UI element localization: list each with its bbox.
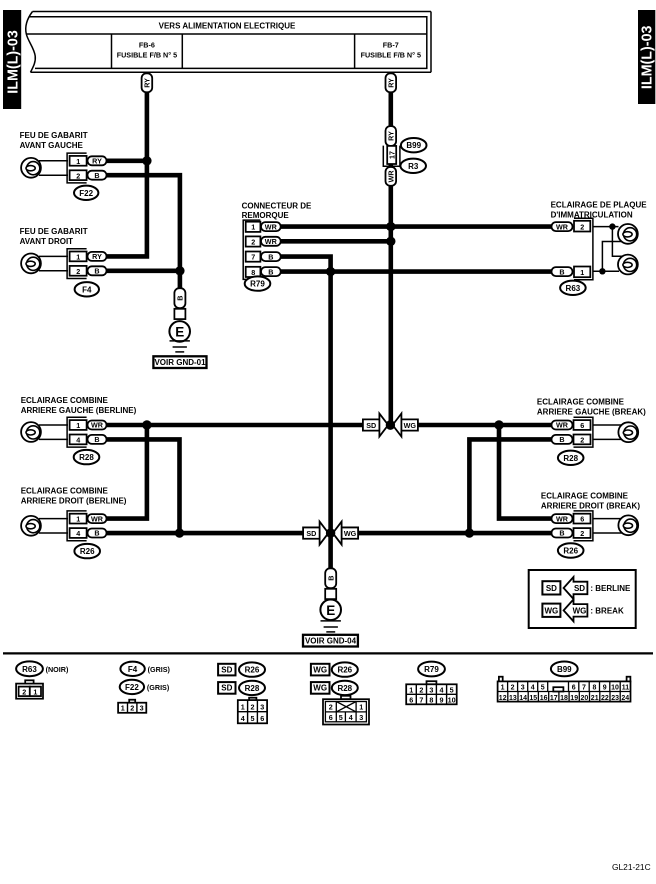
- connector face berline 6-pin: [238, 698, 267, 724]
- legend box SD/WG: [529, 570, 636, 628]
- svg-text:RY: RY: [143, 78, 152, 88]
- svg-text:R28: R28: [79, 453, 94, 462]
- svg-text:F22: F22: [125, 683, 139, 692]
- note VOIR GND-01: [153, 356, 206, 368]
- svg-text:B: B: [268, 252, 273, 261]
- wire plaque pin1 to lamps: [593, 242, 622, 275]
- connector designator F22: [74, 186, 98, 200]
- svg-text:VOIR GND-01: VOIR GND-01: [154, 358, 206, 367]
- label ECLAIRAGE COMBINE ARRIERE GAUCHE (BREAK): [537, 398, 646, 417]
- connector face R79 10-pin: [406, 681, 457, 704]
- svg-text:R63: R63: [566, 284, 581, 293]
- legend arrow WG : BREAK: [564, 599, 624, 621]
- page tab ILM(L)-03 left: [3, 10, 22, 109]
- svg-text:FB-7: FB-7: [383, 41, 399, 50]
- connector face break 6-pin with keyway X: [323, 696, 369, 725]
- svg-text:ECLAIRAGE COMBINE: ECLAIRAGE COMBINE: [537, 398, 625, 407]
- label WR R26 berline: [88, 514, 107, 523]
- label B R79 pin7: [261, 252, 281, 261]
- svg-text:4: 4: [76, 436, 80, 445]
- svg-text:RY: RY: [386, 78, 395, 88]
- label B R79 pin8: [261, 267, 281, 276]
- svg-text:WR: WR: [91, 514, 104, 523]
- junction B berline: [175, 528, 184, 537]
- designator F4 (GRIS): [120, 662, 170, 676]
- svg-text:ECLAIRAGE COMBINE: ECLAIRAGE COMBINE: [21, 487, 109, 496]
- svg-text:R26: R26: [245, 666, 260, 675]
- svg-text:5: 5: [251, 714, 255, 723]
- legend arrow SD : BERLINE: [564, 577, 631, 599]
- svg-text:13: 13: [509, 695, 517, 702]
- svg-text:B: B: [94, 171, 99, 180]
- svg-text:ECLAIRAGE DE PLAQUE: ECLAIRAGE DE PLAQUE: [551, 200, 648, 209]
- designator F22 (GRIS): [120, 680, 170, 694]
- fuse FB-7 (FUSIBLE F/B N 5): [355, 34, 421, 68]
- connector face B99 24-pin: [498, 677, 631, 702]
- svg-text:2: 2: [580, 436, 584, 445]
- svg-text:2: 2: [580, 529, 584, 538]
- connector R28 berline gauche: [67, 417, 87, 447]
- svg-text:17: 17: [550, 695, 558, 702]
- connector face F4/F22 3-pin: [118, 700, 146, 713]
- connector R63 plaque: [574, 218, 593, 280]
- svg-text:1: 1: [580, 268, 584, 277]
- svg-text:B: B: [559, 529, 564, 538]
- note VOIR GND-04: [303, 635, 358, 647]
- legend SD tag: [542, 581, 560, 594]
- svg-text:VERS ALIMENTATION ELECTRIQUE: VERS ALIMENTATION ELECTRIQUE: [159, 21, 296, 30]
- svg-text:B: B: [326, 576, 335, 581]
- svg-text:R79: R79: [424, 665, 439, 674]
- designator R63 (NOIR): [16, 661, 69, 676]
- wire B feu gabarit gauche pin2 down to ground GND-01 (V2): [105, 175, 180, 300]
- wire B arriere gauche break down (V7): [469, 439, 553, 533]
- svg-text:1: 1: [251, 223, 255, 232]
- label WR plaque pin2: [552, 222, 573, 231]
- svg-text:ECLAIRAGE COMBINE: ECLAIRAGE COMBINE: [541, 491, 629, 500]
- svg-text:F4: F4: [82, 285, 92, 294]
- svg-text:SD: SD: [306, 529, 316, 538]
- svg-text:4: 4: [241, 714, 245, 723]
- svg-text:4: 4: [76, 529, 80, 538]
- svg-text:WR: WR: [265, 222, 278, 231]
- svg-text:19: 19: [570, 695, 578, 702]
- svg-text:14: 14: [519, 695, 527, 702]
- label B R26 break: [552, 529, 573, 538]
- connector R26 berline droit: [67, 511, 87, 541]
- svg-text:9: 9: [440, 695, 444, 704]
- svg-text:3: 3: [429, 686, 433, 695]
- junction WR pin2 / V3: [386, 237, 395, 246]
- svg-text:7: 7: [582, 685, 586, 692]
- connector designator R26 berline: [74, 544, 100, 558]
- svg-text:4: 4: [440, 686, 444, 695]
- svg-text:ECLAIRAGE COMBINE: ECLAIRAGE COMBINE: [21, 396, 109, 405]
- svg-text:WG: WG: [404, 421, 417, 430]
- page tab ILM(L)-03 right: [638, 10, 656, 104]
- svg-text:1: 1: [501, 685, 505, 692]
- svg-text:24: 24: [621, 695, 629, 702]
- svg-text:RY: RY: [92, 252, 102, 261]
- svg-text:FEU DE GABARIT: FEU DE GABARIT: [20, 131, 88, 140]
- junction B feu droit: [175, 266, 184, 275]
- svg-text:R28: R28: [337, 684, 352, 693]
- svg-text:B: B: [94, 435, 99, 444]
- svg-text:WG: WG: [573, 606, 587, 615]
- svg-text:12: 12: [499, 695, 507, 702]
- svg-text:: BREAK: : BREAK: [590, 606, 624, 615]
- connector designator R79: [245, 276, 271, 290]
- lamp arriere droit break: [593, 515, 638, 535]
- svg-text:B: B: [176, 296, 185, 301]
- label RY fusible FB-7 drop: [386, 73, 397, 92]
- lamp arriere droit berline: [21, 516, 68, 536]
- label B pin2 feu gauche: [88, 171, 107, 180]
- svg-text:1: 1: [33, 688, 37, 697]
- connector designator R26 break: [558, 543, 584, 557]
- svg-text:WG: WG: [344, 529, 357, 538]
- svg-text:WG: WG: [545, 606, 559, 615]
- wire RY/WR main from FB-7 down to junction SD/WG (V3): [388, 72, 393, 425]
- svg-text:6: 6: [580, 515, 584, 524]
- svg-text:21: 21: [591, 695, 599, 702]
- svg-text:ILM(L)-03: ILM(L)-03: [640, 25, 656, 89]
- svg-text:7: 7: [251, 253, 255, 262]
- svg-text:WR: WR: [386, 170, 395, 183]
- wire WR down to arriere droit break (V8): [499, 425, 553, 519]
- label WR R79 pin1: [261, 222, 281, 231]
- svg-text:R28: R28: [563, 454, 578, 463]
- label ECLAIRAGE COMBINE ARRIERE DROIT (BREAK): [541, 491, 640, 510]
- svg-text:5: 5: [339, 713, 343, 722]
- wire WR remorque pin1 to plaque immatriculation (H3): [279, 224, 553, 229]
- svg-text:E: E: [175, 324, 184, 339]
- svg-text:2: 2: [419, 686, 423, 695]
- svg-text:2: 2: [76, 267, 80, 276]
- junction dot upper redrawn: [386, 420, 395, 429]
- junction WR pin1 / V3: [386, 222, 395, 231]
- svg-text:7: 7: [419, 695, 423, 704]
- junction node SD/WG upper: [386, 420, 395, 429]
- svg-text:11: 11: [622, 685, 630, 692]
- svg-text:B99: B99: [557, 665, 572, 674]
- wire WR rear combination lamps upper row (H1): [105, 423, 552, 428]
- label RY above connector 17: [386, 126, 397, 146]
- junction B break: [465, 528, 474, 537]
- svg-text:CONNECTEUR DE: CONNECTEUR DE: [242, 202, 312, 211]
- connector designator R28 berline: [74, 450, 100, 464]
- svg-text:9: 9: [603, 685, 607, 692]
- svg-text:ARRIERE GAUCHE (BREAK): ARRIERE GAUCHE (BREAK): [537, 408, 646, 417]
- label FEU DE GABARIT AVANT DROIT: [20, 227, 88, 246]
- svg-text:R3: R3: [408, 162, 419, 171]
- label RY pin1 feu gauche: [88, 156, 107, 165]
- svg-text:5: 5: [541, 685, 545, 692]
- arrow WG upper junction: [393, 414, 418, 437]
- legend tag WG R26: [311, 662, 358, 676]
- label CONNECTEUR DE REMORQUE: [242, 202, 312, 221]
- svg-text:SD: SD: [366, 421, 376, 430]
- svg-text:AVANT DROIT: AVANT DROIT: [20, 237, 74, 246]
- designator B99: [551, 662, 578, 677]
- connector designator R28 break: [558, 451, 584, 465]
- svg-text:8: 8: [429, 695, 433, 704]
- svg-text:VOIR GND-04: VOIR GND-04: [305, 637, 357, 646]
- svg-text:6: 6: [260, 714, 264, 723]
- svg-text:1: 1: [409, 686, 413, 695]
- svg-text:18: 18: [560, 695, 568, 702]
- label B R26 berline: [88, 529, 107, 538]
- separator line legend section: [3, 652, 653, 654]
- svg-text:10: 10: [611, 685, 619, 692]
- fuse FB-6 (FUSIBLE F/B N 5): [112, 34, 183, 68]
- wire WR remorque pin2 to V3 (H4): [279, 239, 391, 244]
- svg-text:WR: WR: [265, 237, 278, 246]
- lamp plaque immatriculation upper: [618, 224, 638, 244]
- svg-text:1: 1: [121, 704, 125, 713]
- svg-text:SD: SD: [574, 584, 585, 593]
- svg-text:FUSIBLE F/B N° 5: FUSIBLE F/B N° 5: [361, 51, 421, 60]
- label FEU DE GABARIT AVANT GAUCHE: [20, 131, 88, 150]
- svg-text:WR: WR: [556, 222, 569, 231]
- svg-text:20: 20: [581, 695, 589, 702]
- legend tag SD R28: [218, 681, 265, 695]
- label B ground wire GND-01: [174, 288, 185, 308]
- svg-text:FEU DE GABARIT: FEU DE GABARIT: [20, 227, 88, 236]
- svg-text:4: 4: [349, 713, 353, 722]
- svg-text:RY: RY: [386, 131, 395, 141]
- svg-text:1: 1: [76, 157, 80, 166]
- svg-text:1: 1: [241, 702, 245, 711]
- label WR R26 break: [552, 514, 573, 523]
- svg-text:ILM(L)-03: ILM(L)-03: [6, 30, 22, 94]
- connector R28 break gauche: [574, 417, 593, 447]
- svg-text:F22: F22: [79, 189, 93, 198]
- svg-text:2: 2: [329, 703, 333, 712]
- svg-text:SD: SD: [221, 665, 232, 674]
- svg-text:2: 2: [251, 702, 255, 711]
- arrow WG lower junction: [333, 522, 358, 545]
- svg-text:WG: WG: [313, 684, 327, 693]
- label B R28 break: [552, 435, 573, 444]
- wire B rear combination lamps lower row (H2): [105, 531, 552, 536]
- svg-text:5: 5: [450, 686, 454, 695]
- svg-text:6: 6: [572, 685, 576, 692]
- label B plaque pin1: [552, 267, 573, 276]
- svg-text:B: B: [268, 267, 273, 276]
- legend tag WG R28: [311, 681, 358, 695]
- svg-text:1: 1: [76, 515, 80, 524]
- junction dot lower redrawn: [326, 528, 335, 537]
- svg-text:6: 6: [329, 713, 333, 722]
- label ECLAIRAGE COMBINE ARRIERE GAUCHE (BERLINE): [21, 396, 137, 415]
- svg-text:2: 2: [251, 237, 255, 246]
- connector R79 trailer: [243, 220, 260, 279]
- svg-text:AVANT GAUCHE: AVANT GAUCHE: [20, 141, 84, 150]
- svg-text:WR: WR: [556, 421, 569, 430]
- svg-text:GL21-21C: GL21-21C: [612, 862, 651, 872]
- wire plaque pin2 to lamps: [593, 223, 623, 256]
- svg-text:2: 2: [22, 688, 26, 697]
- svg-text:R28: R28: [245, 684, 260, 693]
- svg-text:1: 1: [359, 703, 363, 712]
- connector ground GND-04: [325, 589, 336, 599]
- connector designator B99: [401, 138, 427, 152]
- wire RY feu gabarit gauche pin1 to V1: [105, 159, 147, 164]
- svg-text:SD: SD: [221, 684, 232, 693]
- lamp feu de gabarit avant gauche: [21, 158, 68, 178]
- svg-text:2: 2: [76, 171, 80, 180]
- label B R28 berline: [88, 435, 107, 444]
- svg-text:2: 2: [511, 685, 515, 692]
- wire RY from FB-6 down to front marker lamps (V1): [105, 72, 147, 256]
- label WR R28 berline: [88, 421, 107, 430]
- lamp arriere gauche break: [593, 422, 638, 442]
- power feed band VERS ALIMENTATION ELECTRIQUE: [26, 12, 431, 73]
- label ECLAIRAGE COMBINE ARRIERE DROIT (BERLINE): [21, 487, 127, 506]
- wire B feu gabarit droit pin2 to V2: [105, 268, 180, 273]
- svg-text:16: 16: [540, 695, 548, 702]
- svg-text:1: 1: [76, 421, 80, 430]
- svg-text:ARRIERE DROIT (BREAK): ARRIERE DROIT (BREAK): [541, 501, 640, 510]
- svg-text:3: 3: [140, 704, 144, 713]
- svg-text:2: 2: [580, 222, 584, 231]
- label B pin2 feu droit: [88, 266, 107, 275]
- label RY pin1 feu droit: [88, 252, 107, 261]
- junction WR berline gauche: [142, 420, 151, 429]
- svg-text:23: 23: [611, 695, 619, 702]
- svg-text:WR: WR: [556, 514, 569, 523]
- lamp arriere gauche berline: [21, 422, 68, 442]
- svg-text:F4: F4: [128, 665, 138, 674]
- svg-text:(NOIR): (NOIR): [46, 665, 69, 674]
- svg-text:FB-6: FB-6: [139, 41, 155, 50]
- arrow SD lower junction: [303, 522, 328, 545]
- svg-text:FUSIBLE F/B N° 5: FUSIBLE F/B N° 5: [117, 51, 177, 60]
- svg-text:REMORQUE: REMORQUE: [242, 211, 290, 220]
- connector designator R63: [560, 281, 586, 295]
- svg-text:R79: R79: [250, 280, 265, 289]
- wire B remorque pin8 to plaque immatriculation (H5): [279, 269, 553, 274]
- svg-text:B: B: [94, 529, 99, 538]
- label B ground wire GND-04: [325, 568, 336, 588]
- svg-text:(GRIS): (GRIS): [148, 665, 171, 674]
- svg-text:3: 3: [260, 702, 264, 711]
- lamp feu de gabarit avant droit: [21, 254, 68, 274]
- ground E GND-01: [169, 321, 190, 352]
- svg-text:B99: B99: [406, 141, 421, 150]
- svg-text:B: B: [559, 435, 564, 444]
- connector F22 feu gauche: [67, 153, 87, 183]
- arrow SD upper junction: [363, 414, 388, 437]
- svg-text:22: 22: [601, 695, 609, 702]
- svg-text:: BERLINE: : BERLINE: [590, 584, 631, 593]
- svg-text:R26: R26: [80, 547, 95, 556]
- label RY fusible FB-6 drop: [142, 73, 153, 92]
- junction B pin8 / V6: [326, 267, 335, 276]
- svg-text:WG: WG: [313, 665, 327, 674]
- svg-text:B: B: [94, 267, 99, 276]
- lamp plaque immatriculation lower: [618, 255, 638, 275]
- ground E GND-04: [320, 600, 341, 632]
- connector face R63 2-pin: [16, 680, 43, 698]
- legend WG tag: [542, 604, 560, 617]
- svg-text:17: 17: [387, 151, 396, 159]
- label WR R79 pin2: [261, 237, 281, 246]
- connector designator F4: [75, 282, 99, 296]
- svg-text:RY: RY: [92, 157, 102, 166]
- svg-text:WR: WR: [91, 421, 104, 430]
- svg-text:3: 3: [521, 685, 525, 692]
- legend tag SD R26: [218, 662, 265, 676]
- connector designator R3: [400, 159, 426, 173]
- svg-text:1: 1: [76, 253, 80, 262]
- svg-text:ARRIERE GAUCHE (BERLINE): ARRIERE GAUCHE (BERLINE): [21, 406, 137, 415]
- svg-text:(GRIS): (GRIS): [147, 683, 170, 692]
- wire B remorque pin7 down to ground GND-04 (V6): [279, 257, 331, 578]
- svg-text:2: 2: [130, 704, 134, 713]
- svg-text:10: 10: [448, 695, 456, 704]
- svg-text:8: 8: [251, 268, 255, 277]
- svg-text:ARRIERE DROIT (BERLINE): ARRIERE DROIT (BERLINE): [21, 497, 127, 506]
- svg-text:R26: R26: [337, 666, 352, 675]
- wire B arriere gauche berline down (V5): [105, 439, 180, 533]
- connector R26 break droit: [574, 511, 593, 541]
- svg-text:B: B: [559, 267, 564, 276]
- inline connector 17 (B99/R3): [383, 146, 400, 167]
- svg-text:3: 3: [359, 713, 363, 722]
- label ECLAIRAGE DE PLAQUE D'IMMATRICULATION: [551, 200, 648, 219]
- svg-text:4: 4: [531, 685, 535, 692]
- connector F4 feu droit: [67, 249, 87, 279]
- svg-text:15: 15: [529, 695, 537, 702]
- designator R79: [418, 662, 445, 677]
- label WR below connector 17: [386, 167, 397, 186]
- junction WR break gauche: [494, 420, 503, 429]
- label WR R28 break: [552, 421, 573, 430]
- svg-text:6: 6: [580, 421, 584, 430]
- wire WR down to arriere droit berline (V4): [105, 425, 147, 519]
- connector ground GND-01: [174, 309, 185, 319]
- junction node SD/WG lower: [326, 528, 335, 537]
- svg-text:R26: R26: [563, 547, 578, 556]
- svg-text:8: 8: [592, 685, 596, 692]
- svg-text:R63: R63: [22, 665, 37, 674]
- svg-text:SD: SD: [546, 584, 557, 593]
- svg-text:6: 6: [409, 695, 413, 704]
- svg-text:E: E: [326, 603, 335, 618]
- junction RY feu gauche: [142, 156, 151, 165]
